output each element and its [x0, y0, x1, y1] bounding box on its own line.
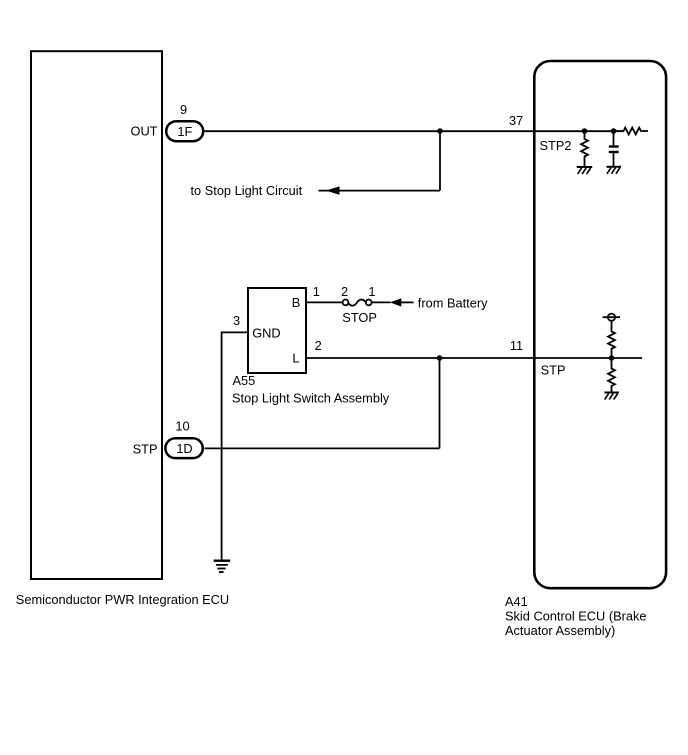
stop light switch box A55: [248, 288, 306, 373]
svg-text:10: 10: [175, 418, 189, 433]
wire branch down to 1D: [439, 358, 441, 448]
svg-text:STOP: STOP: [342, 310, 377, 325]
wire switch to battery arrow: [372, 301, 391, 303]
connector oval 1F: [166, 121, 203, 141]
svg-text:1F: 1F: [177, 124, 192, 139]
svg-text:STP: STP: [541, 363, 566, 378]
right ECU box A41: [534, 61, 666, 588]
earth ground G4: [214, 560, 231, 574]
svg-text:1D: 1D: [176, 441, 192, 456]
node: junction STP: [609, 355, 615, 361]
svg-text:9: 9: [180, 102, 187, 117]
svg-text:A41: A41: [505, 594, 528, 609]
svg-text:Skid Control ECU (Brake: Skid Control ECU (Brake: [505, 609, 647, 624]
svg-text:1: 1: [368, 284, 375, 299]
resistor R4 vertical (lower STP): [608, 358, 615, 392]
ground chassis G2: [607, 167, 622, 174]
node: junction stop-light branch: [437, 128, 443, 134]
wire branch left to arrow: [319, 190, 441, 192]
svg-text:B: B: [292, 295, 301, 310]
wire STP pin 10 to branch: [205, 447, 440, 449]
svg-text:2: 2: [315, 338, 322, 353]
svg-text:1: 1: [313, 284, 320, 299]
resistor R2 horizontal (series): [616, 128, 648, 135]
svg-text:from Battery: from Battery: [418, 295, 488, 310]
svg-text:GND: GND: [252, 325, 280, 340]
ground chassis G3: [604, 393, 618, 400]
left ECU box: [31, 51, 162, 579]
connector oval 1D: [165, 438, 202, 458]
svg-text:OUT: OUT: [130, 124, 157, 139]
svg-text:STP2: STP2: [540, 138, 572, 153]
svg-text:A55: A55: [233, 373, 256, 388]
ground chassis G1: [577, 167, 592, 174]
wire pin L to STP (11): [307, 357, 642, 359]
svg-text:2: 2: [341, 284, 348, 299]
resistor R1 vertical (STP2): [581, 131, 588, 167]
terminal circle STP: [608, 314, 615, 321]
wire OUT pin 9 to pin 37 STP2: [205, 130, 624, 132]
switch contact right (1): [366, 300, 372, 306]
wire branch down: [439, 131, 441, 191]
arrowhead to Stop Light Circuit: [326, 186, 340, 194]
svg-text:37: 37: [509, 113, 523, 128]
capacitor C1: [609, 131, 619, 166]
node: junction STP2 resistor: [582, 128, 588, 134]
svg-text:Actuator Assembly): Actuator Assembly): [505, 623, 615, 638]
wire pin B to switch: [307, 301, 342, 303]
svg-text:Semiconductor PWR Integration: Semiconductor PWR Integration ECU: [16, 592, 229, 607]
svg-text:L: L: [292, 350, 299, 365]
svg-text:STP: STP: [133, 441, 158, 456]
svg-text:Stop Light Switch Assembly: Stop Light Switch Assembly: [232, 390, 390, 405]
node: junction STP branch: [437, 355, 443, 361]
arrowhead from Battery: [390, 298, 401, 306]
switch blade S-curve: [349, 300, 366, 306]
svg-text:to Stop Light Circuit: to Stop Light Circuit: [191, 183, 303, 198]
wire GND pin 3: [222, 332, 248, 559]
node: junction capacitor: [611, 128, 617, 134]
resistor R3 vertical (upper STP): [608, 321, 615, 358]
svg-text:11: 11: [510, 338, 523, 353]
svg-text:3: 3: [233, 313, 240, 328]
switch contact left (2): [343, 300, 349, 306]
